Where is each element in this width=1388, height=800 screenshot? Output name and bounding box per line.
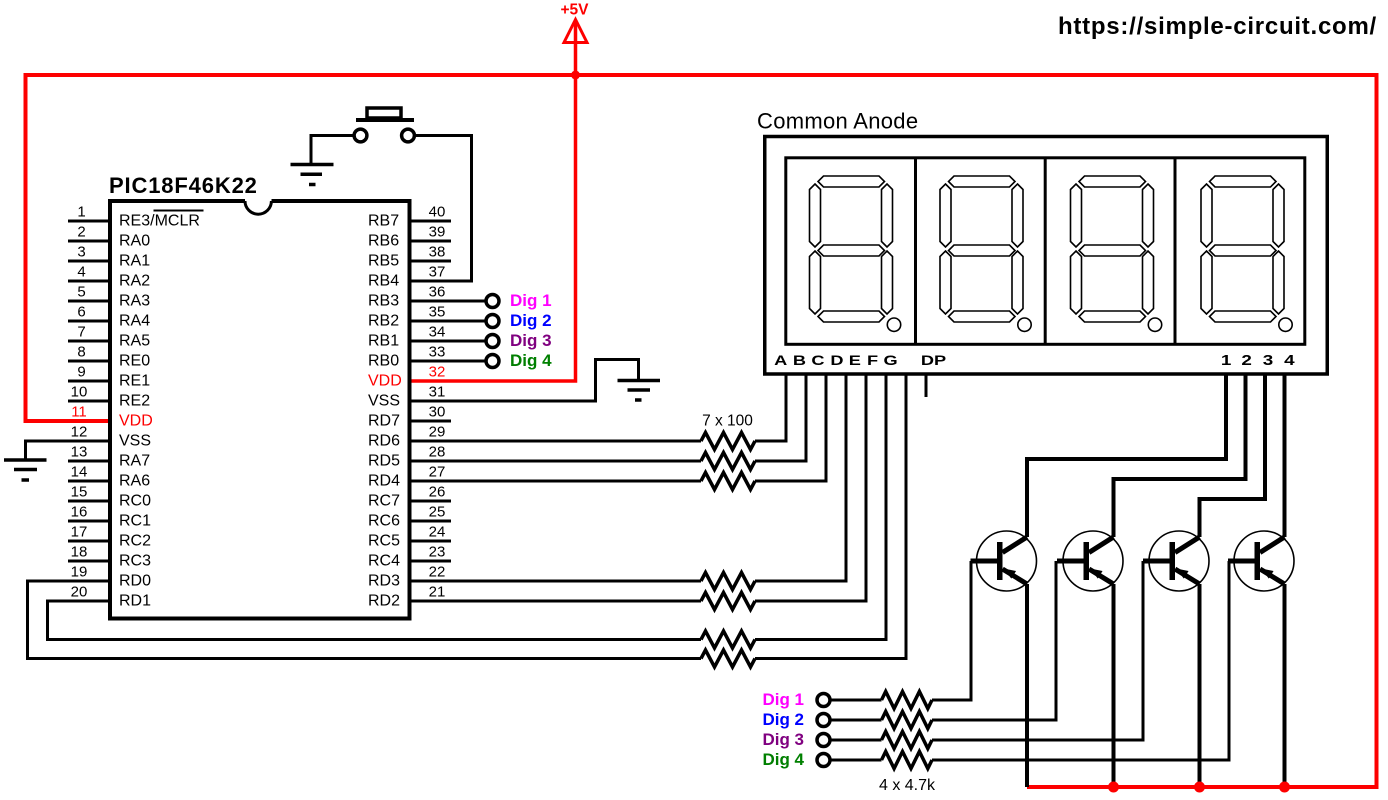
svg-text:14: 14	[71, 464, 88, 481]
svg-text:B: B	[793, 353, 806, 369]
svg-text:RC7: RC7	[368, 492, 400, 509]
svg-text:15: 15	[71, 484, 88, 501]
svg-text:RE3/MCLR: RE3/MCLR	[119, 212, 200, 229]
svg-text:RC5: RC5	[368, 532, 400, 549]
svg-text:24: 24	[429, 524, 446, 541]
svg-text:RC6: RC6	[368, 512, 400, 529]
svg-text:A: A	[774, 353, 787, 369]
svg-text:RE1: RE1	[119, 372, 150, 389]
svg-text:31: 31	[429, 384, 446, 401]
svg-text:22: 22	[429, 564, 446, 581]
svg-text:10: 10	[71, 384, 88, 401]
svg-text:F: F	[867, 353, 878, 369]
svg-text:Dig 3: Dig 3	[510, 331, 552, 350]
svg-text:RD7: RD7	[368, 412, 400, 429]
svg-text:26: 26	[429, 484, 446, 501]
svg-text:RA2: RA2	[119, 272, 150, 289]
svg-text:1: 1	[77, 204, 85, 221]
svg-text:RC2: RC2	[119, 532, 151, 549]
svg-text:32: 32	[429, 364, 446, 381]
svg-text:6: 6	[77, 304, 85, 321]
svg-text:13: 13	[71, 444, 88, 461]
svg-text:30: 30	[429, 404, 446, 421]
svg-text:PIC18F46K22: PIC18F46K22	[109, 173, 258, 198]
svg-text:Dig 1: Dig 1	[762, 690, 804, 709]
svg-text:RD2: RD2	[368, 592, 400, 609]
svg-text:C: C	[811, 353, 824, 369]
svg-text:4 x 4.7k: 4 x 4.7k	[879, 777, 936, 794]
svg-text:4: 4	[77, 264, 85, 281]
svg-text:RC4: RC4	[368, 552, 400, 569]
svg-text:RB2: RB2	[368, 312, 399, 329]
svg-text:RB6: RB6	[368, 232, 399, 249]
svg-text:RE0: RE0	[119, 352, 150, 369]
svg-text:7: 7	[77, 324, 85, 341]
svg-text:Dig 2: Dig 2	[762, 710, 804, 729]
svg-text:RA5: RA5	[119, 332, 150, 349]
svg-text:17: 17	[71, 524, 88, 541]
svg-text:12: 12	[71, 424, 88, 441]
svg-text:29: 29	[429, 424, 446, 441]
svg-text:RD3: RD3	[368, 572, 400, 589]
svg-text:28: 28	[429, 444, 446, 461]
svg-text:RB4: RB4	[368, 272, 399, 289]
svg-text:35: 35	[429, 304, 446, 321]
svg-text:RD5: RD5	[368, 452, 400, 469]
svg-text:Dig 1: Dig 1	[510, 291, 552, 310]
svg-text:40: 40	[429, 204, 446, 221]
svg-text:18: 18	[71, 544, 88, 561]
svg-text:RD4: RD4	[368, 472, 400, 489]
svg-text:9: 9	[77, 364, 85, 381]
svg-text:5: 5	[77, 284, 85, 301]
svg-text:VDD: VDD	[119, 412, 153, 429]
svg-text:16: 16	[71, 504, 88, 521]
svg-text:39: 39	[429, 224, 446, 241]
svg-text:38: 38	[429, 244, 446, 261]
svg-text:3: 3	[77, 244, 85, 261]
svg-text:D: D	[830, 353, 843, 369]
svg-text:Common Anode: Common Anode	[757, 109, 918, 134]
svg-text:RA1: RA1	[119, 252, 150, 269]
svg-text:RB3: RB3	[368, 292, 399, 309]
svg-text:20: 20	[71, 584, 88, 601]
svg-text:25: 25	[429, 504, 446, 521]
svg-text:VSS: VSS	[119, 432, 151, 449]
svg-text:2: 2	[1241, 352, 1251, 368]
svg-text:RD6: RD6	[368, 432, 400, 449]
svg-text:11: 11	[71, 404, 87, 421]
svg-text:RC3: RC3	[119, 552, 151, 569]
svg-text:4: 4	[1284, 352, 1295, 368]
svg-text:33: 33	[429, 344, 446, 361]
svg-text:7 x 100: 7 x 100	[702, 413, 753, 430]
svg-text:RB5: RB5	[368, 252, 399, 269]
svg-text:2: 2	[77, 224, 85, 241]
svg-text:DP: DP	[921, 353, 946, 369]
svg-text:RA7: RA7	[119, 452, 150, 469]
svg-text:https://simple-circuit.com/: https://simple-circuit.com/	[1058, 13, 1377, 40]
svg-text:23: 23	[429, 544, 446, 561]
svg-text:19: 19	[71, 564, 88, 581]
svg-text:Dig 2: Dig 2	[510, 311, 552, 330]
svg-text:RE2: RE2	[119, 392, 150, 409]
svg-text:VSS: VSS	[368, 392, 400, 409]
svg-text:Dig 4: Dig 4	[762, 750, 804, 769]
svg-text:RA3: RA3	[119, 292, 150, 309]
svg-text:VDD: VDD	[368, 372, 402, 389]
svg-text:36: 36	[429, 284, 446, 301]
svg-text:RD0: RD0	[119, 572, 151, 589]
svg-text:RB1: RB1	[368, 332, 399, 349]
svg-text:RA6: RA6	[119, 472, 150, 489]
svg-text:Dig 3: Dig 3	[762, 730, 804, 749]
svg-text:34: 34	[429, 324, 446, 341]
svg-text:E: E	[849, 353, 861, 369]
svg-text:RD1: RD1	[119, 592, 151, 609]
svg-text:37: 37	[429, 264, 446, 281]
svg-text:8: 8	[77, 344, 85, 361]
svg-text:RB7: RB7	[368, 212, 399, 229]
svg-text:27: 27	[429, 464, 446, 481]
svg-text:RA4: RA4	[119, 312, 150, 329]
svg-text:RA0: RA0	[119, 232, 150, 249]
svg-text:3: 3	[1263, 352, 1273, 368]
svg-text:RC1: RC1	[119, 512, 151, 529]
svg-text:Dig 4: Dig 4	[510, 351, 552, 370]
svg-text:21: 21	[429, 584, 446, 601]
svg-text:RB0: RB0	[368, 352, 399, 369]
svg-text:RC0: RC0	[119, 492, 151, 509]
svg-text:+5V: +5V	[560, 1, 589, 18]
svg-text:1: 1	[1221, 352, 1231, 368]
svg-text:G: G	[884, 353, 898, 369]
